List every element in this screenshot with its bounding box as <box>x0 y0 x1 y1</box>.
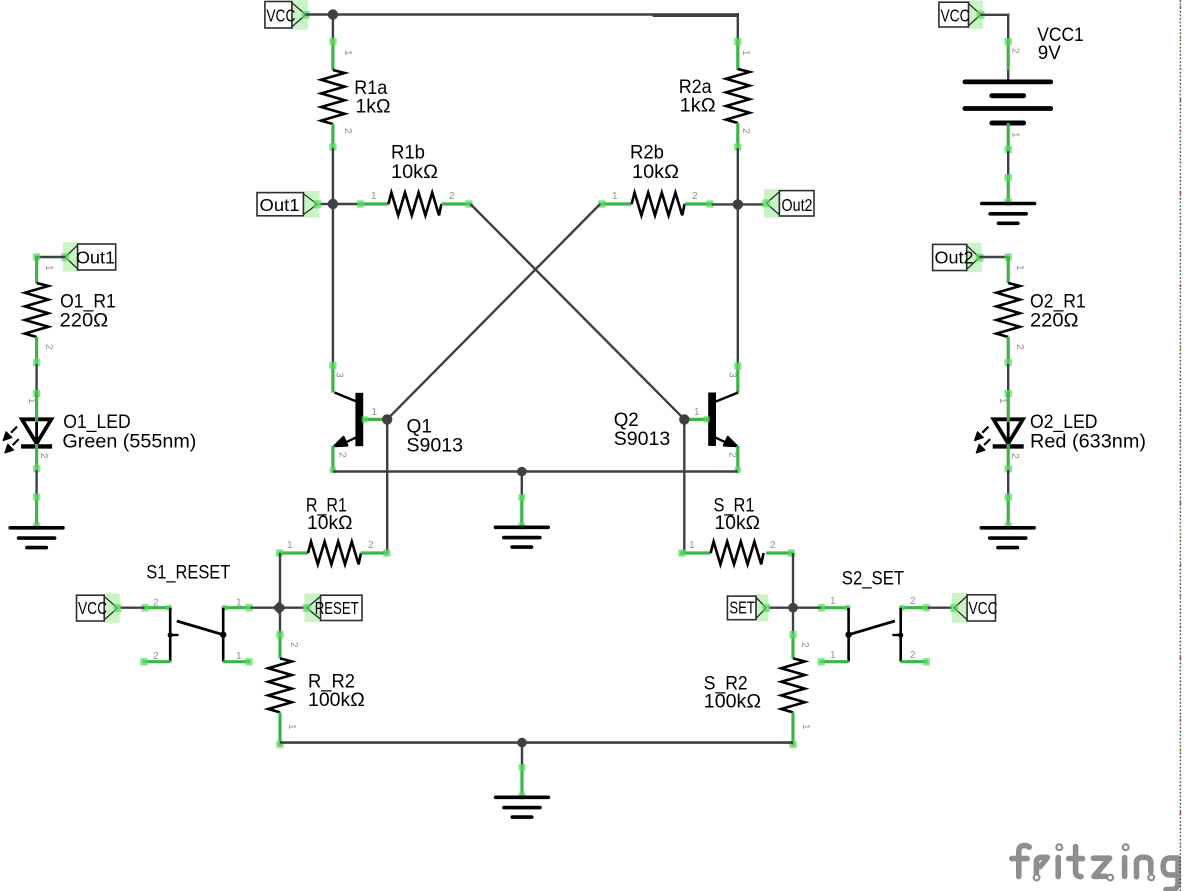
wire diagonal R2b to Q1 base <box>387 204 600 419</box>
label SET <box>727 594 770 621</box>
wire diagonal R1b to Q2 base <box>470 204 684 419</box>
switch S1_RESET <box>140 561 253 665</box>
wire center ground stub <box>518 472 525 530</box>
wire VCC top-left to junction <box>306 13 333 15</box>
svg-text:1: 1 <box>26 398 37 404</box>
svg-text:2: 2 <box>38 453 49 459</box>
svg-text:1: 1 <box>830 650 836 661</box>
wire RESET flag stub <box>279 607 306 609</box>
resistor O1_R1 220 <box>25 253 116 366</box>
label VCC top-right <box>939 1 985 29</box>
svg-text:2: 2 <box>770 540 776 551</box>
svg-text:220Ω: 220Ω <box>1030 310 1079 332</box>
svg-text:2: 2 <box>910 596 916 607</box>
node Out2 junction <box>733 199 743 209</box>
svg-text:Out1: Out1 <box>260 195 300 215</box>
svg-text:2: 2 <box>153 651 159 662</box>
svg-text:1: 1 <box>1010 132 1021 138</box>
svg-text:2: 2 <box>153 598 159 609</box>
svg-text:2: 2 <box>342 128 353 134</box>
node RESET junction <box>273 601 287 615</box>
svg-text:1: 1 <box>997 398 1008 404</box>
svg-text:2: 2 <box>368 540 374 551</box>
wire bottom ground stub <box>519 743 526 800</box>
svg-text:1kΩ: 1kΩ <box>680 95 716 117</box>
label RESET <box>303 594 362 623</box>
wire RESET node down to R_R2 <box>279 608 281 634</box>
svg-text:S2_SET: S2_SET <box>842 567 904 589</box>
svg-text:2: 2 <box>740 128 751 134</box>
wire SET node down to S_R2 <box>792 608 794 634</box>
wire battery to ground <box>1004 151 1012 206</box>
wire Out1 node down to Q1 collector <box>332 204 334 365</box>
svg-text:3: 3 <box>334 372 345 378</box>
svg-text:Red (633nm): Red (633nm) <box>1030 431 1146 453</box>
svg-text:1: 1 <box>612 191 618 202</box>
label Out2 branch <box>933 243 984 273</box>
resistor R1a 1k <box>321 38 390 151</box>
wire O1_R1 to O1_LED <box>35 364 37 393</box>
svg-text:Out2: Out2 <box>935 248 974 268</box>
svg-text:10kΩ: 10kΩ <box>307 512 353 534</box>
wire O2_R1 to O2_LED <box>1007 364 1009 393</box>
svg-text:RESET: RESET <box>315 598 359 618</box>
node Q2 base junction <box>679 414 689 424</box>
wire O2_LED to ground <box>1004 470 1012 530</box>
svg-text:100kΩ: 100kΩ <box>704 691 761 713</box>
svg-text:10kΩ: 10kΩ <box>632 161 679 183</box>
svg-text:2: 2 <box>288 642 299 648</box>
node Q1 base junction <box>382 414 392 424</box>
label Out1 main <box>257 191 321 218</box>
svg-text:1: 1 <box>830 596 836 607</box>
resistor R2b 10k <box>598 142 714 216</box>
wire Q1 base down to R_R1 <box>386 419 388 553</box>
wire SET node to switch S2 <box>793 607 821 609</box>
svg-text:1: 1 <box>1014 265 1025 271</box>
wire VCC-left to switch S1 <box>118 607 145 609</box>
svg-text:2: 2 <box>1014 344 1025 350</box>
svg-text:100kΩ: 100kΩ <box>308 689 365 711</box>
svg-text:Out2: Out2 <box>782 195 813 215</box>
transistor Q1 S9013 <box>329 362 463 474</box>
wire Out1 flag stub <box>317 203 333 205</box>
wire emitter rail <box>333 470 738 473</box>
wire S_R1 down to SET node <box>792 553 794 608</box>
svg-text:2: 2 <box>1010 48 1021 54</box>
wire Out2 flag stub <box>738 203 766 205</box>
svg-text:1: 1 <box>694 407 700 418</box>
ground bottom <box>496 797 549 817</box>
wire top rail <box>333 13 738 15</box>
LED O1_LED green <box>3 390 196 473</box>
svg-text:2: 2 <box>1009 453 1020 459</box>
wire Out2 flag to corner <box>980 256 1009 258</box>
svg-text:S1_RESET: S1_RESET <box>146 561 230 583</box>
svg-text:1: 1 <box>236 651 242 662</box>
wire switch S2 to VCC-right <box>928 607 955 609</box>
svg-text:10kΩ: 10kΩ <box>391 161 438 183</box>
svg-text:10kΩ: 10kΩ <box>715 512 761 534</box>
wire R1a to Out1 node <box>332 148 334 205</box>
wire R2a to Out2 node <box>737 148 739 205</box>
svg-text:1: 1 <box>371 191 377 202</box>
wire VCC flag to corner <box>981 14 1009 16</box>
node SET junction <box>788 603 798 613</box>
label Out2 main <box>762 189 814 218</box>
svg-text:1: 1 <box>372 407 378 418</box>
node emitter rail center <box>517 467 527 477</box>
junction top-left VCC node <box>328 9 338 19</box>
wire bottom rail <box>280 741 793 744</box>
wire top rail down to R2a <box>737 13 739 41</box>
svg-text:3: 3 <box>727 372 738 378</box>
svg-text:2: 2 <box>799 642 810 648</box>
wire R2b to Out2 node <box>712 203 738 205</box>
LED O2_LED red <box>975 390 1146 473</box>
svg-text:Out1: Out1 <box>76 248 115 268</box>
wire corner down to battery <box>1007 14 1009 42</box>
label VCC bottom-right <box>950 593 997 623</box>
wire top rail overlap segment <box>653 14 738 17</box>
label VCC bottom-left <box>77 594 122 623</box>
resistor O2_R1 220 <box>996 253 1085 366</box>
wire Out1 flag to corner <box>37 256 66 258</box>
ground center <box>495 527 548 547</box>
svg-text:S9013: S9013 <box>614 428 671 450</box>
svg-text:2: 2 <box>727 452 738 458</box>
wire Out2 node down to Q2 collector <box>737 204 739 365</box>
edge artifact column <box>1180 0 1182 891</box>
label Out1 branch <box>61 242 115 271</box>
resistor S_R2 100k <box>704 631 811 749</box>
svg-text:220Ω: 220Ω <box>60 310 109 332</box>
resistor R_R2 100k <box>268 631 365 749</box>
svg-text:2: 2 <box>449 191 455 202</box>
svg-text:1: 1 <box>689 540 695 551</box>
node Out1 junction <box>328 199 338 209</box>
wire R_R1 down to RESET node <box>279 553 281 608</box>
svg-text:1: 1 <box>43 265 54 271</box>
svg-text:1: 1 <box>287 540 293 551</box>
svg-text:2: 2 <box>43 344 54 350</box>
resistor S_R1 10k <box>678 495 795 565</box>
ground Out1 branch <box>10 528 63 548</box>
svg-text:1kΩ: 1kΩ <box>356 96 391 118</box>
wire Out1 node to R1b <box>333 203 359 205</box>
svg-text:1: 1 <box>236 598 242 609</box>
switch S2_SET <box>817 567 930 665</box>
wire junction down to R1a <box>332 13 334 41</box>
svg-text:2: 2 <box>692 191 698 202</box>
svg-text:Green (555nm): Green (555nm) <box>62 431 196 453</box>
svg-text:1: 1 <box>342 50 353 56</box>
battery VCC1 9V <box>965 24 1084 153</box>
node bottom rail center <box>517 738 527 748</box>
svg-text:SET: SET <box>729 598 755 618</box>
label VCC top-left <box>265 0 310 30</box>
svg-text:9V: 9V <box>1038 42 1061 64</box>
wire Q2 base down to S_R1 <box>683 419 685 553</box>
svg-text:2: 2 <box>910 650 916 661</box>
wire switch S1 to RESET node <box>250 607 279 609</box>
ground battery <box>982 204 1035 224</box>
svg-text:VCC: VCC <box>969 598 998 618</box>
wire SET flag stub <box>766 607 793 609</box>
wire O1_LED to ground <box>33 470 41 530</box>
svg-text:1: 1 <box>800 724 811 730</box>
svg-text:S9013: S9013 <box>407 435 464 457</box>
resistor R2a 1k <box>679 38 751 151</box>
svg-text:VCC: VCC <box>941 5 970 25</box>
svg-text:VCC: VCC <box>266 5 295 25</box>
resistor R_R1 10k <box>276 495 391 565</box>
svg-text:1: 1 <box>740 50 751 56</box>
resistor R1b 10k <box>357 142 473 216</box>
fritzing logo <box>1012 844 1178 889</box>
transistor Q2 S9013 <box>614 362 742 473</box>
svg-text:2: 2 <box>337 452 348 458</box>
svg-text:VCC: VCC <box>78 598 107 618</box>
svg-text:1: 1 <box>286 724 297 730</box>
ground Out2 branch <box>981 528 1034 548</box>
